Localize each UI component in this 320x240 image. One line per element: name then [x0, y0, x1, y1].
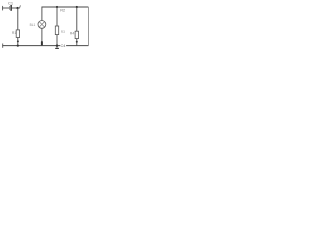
wire (lamp bottom to blob) [41, 28, 43, 41]
svg-text:R1: R1 [12, 31, 16, 35]
wire (right branch down from node C) [76, 7, 78, 31]
wire (middle box to rail) [56, 35, 58, 46]
resistor R1 (left box) [16, 30, 19, 38]
terminal X2 (bottom-left input tick) [2, 44, 4, 48]
node E (dot below right box) [76, 41, 78, 43]
wire (top rail right: corner above lamp to right edge) [42, 7, 89, 21]
label C4 (with white knockout over rail) [60, 44, 66, 48]
capacitor C1 (left thin plate) [9, 6, 11, 10]
resistor R3 (middle box) [55, 26, 58, 35]
node B (junction dot at x=57 top) [56, 6, 58, 8]
svg-text:C1: C1 [8, 0, 14, 5]
lamp HL1 (circle with cross) [38, 21, 46, 29]
svg-text:BL1: BL1 [30, 23, 36, 27]
capacitor C1 (right thick plate) [10, 5, 12, 11]
resistor R4 (right box) [75, 31, 78, 38]
svg-text:R2: R2 [60, 9, 65, 13]
node D (dot below left box) [17, 40, 19, 42]
switch SA1 (open contact tick) [19, 5, 22, 8]
wire (C1 to node A) [12, 7, 20, 9]
node C (junction dot at x=77 top) [76, 6, 78, 8]
capacitor C4 (stub below rail) [56, 46, 58, 48]
wire (left branch down from node A) [17, 8, 19, 30]
wire (right box to rail) [76, 39, 78, 46]
node A (junction dot top-left) [16, 7, 18, 9]
svg-text:R4: R4 [70, 32, 74, 36]
svg-text:R3: R3 [61, 30, 65, 34]
wire (bottom rail) [2, 45, 88, 47]
wire (left box to rail) [17, 38, 19, 46]
node G (junction dot rail x=57) [56, 44, 59, 47]
wire (right vertical side) [87, 7, 89, 46]
wire (top-left from terminal to C1) [2, 7, 9, 9]
wire (mid branch down from node B) [56, 7, 58, 26]
terminal X1 (top-left input tick) [2, 6, 4, 10]
svg-text:C4: C4 [61, 43, 67, 48]
node F (junction dot rail x=18) [17, 44, 19, 46]
capacitor C2 (dark stub above bottom rail) [41, 41, 43, 46]
